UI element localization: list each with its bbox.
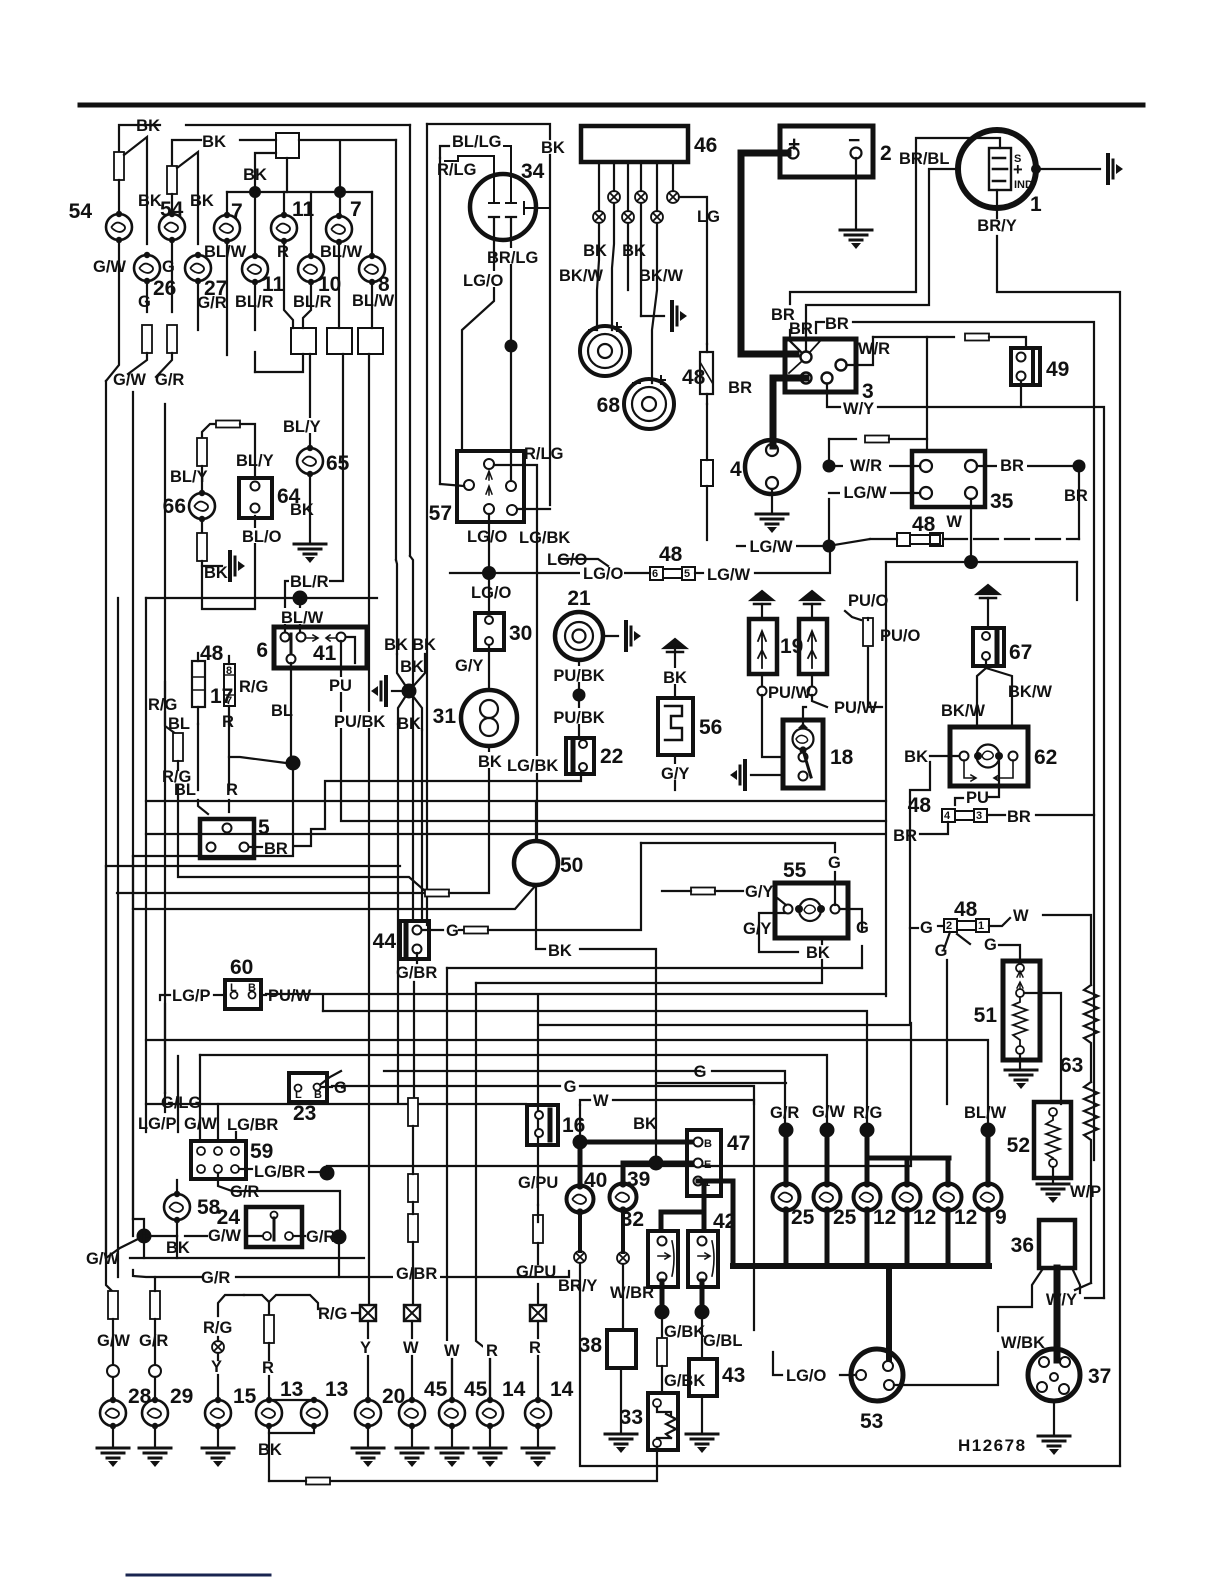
svg-text:R/G: R/G	[318, 1305, 347, 1323]
wire 49 to W/Y	[1020, 381, 1022, 407]
svg-text:63: 63	[1060, 1054, 1083, 1077]
relay 32	[648, 1231, 678, 1287]
svg-text:PU/BK: PU/BK	[553, 709, 604, 727]
svg-text:55: 55	[783, 859, 807, 882]
wires below boxes	[254, 352, 256, 372]
svg-text:W/R: W/R	[850, 457, 882, 475]
wire G diag below 48	[944, 932, 950, 949]
svg-text:BK: BK	[138, 192, 162, 210]
lamp 65	[297, 445, 323, 477]
svg-text:LG: LG	[697, 208, 720, 226]
wire BR down	[1078, 466, 1080, 539]
wire lamp10 down	[303, 282, 311, 328]
fuse	[142, 325, 152, 353]
svg-text:28: 28	[128, 1385, 152, 1408]
svg-text:W: W	[1013, 907, 1029, 925]
node BL/R dot	[293, 591, 308, 606]
svg-text:39: 39	[627, 1168, 650, 1191]
svg-text:R: R	[262, 1359, 274, 1377]
thick wire B line	[580, 1140, 692, 1145]
svg-text:LG/W: LG/W	[707, 566, 750, 584]
svg-text:33: 33	[620, 1406, 643, 1429]
svg-text:BK: BK	[136, 117, 160, 135]
svg-text:LG/O: LG/O	[463, 272, 503, 290]
wire bus y801	[146, 801, 536, 841]
svg-text:PU/W: PU/W	[268, 987, 312, 1005]
lamp 8	[359, 253, 385, 285]
svg-text:BK: BK	[290, 501, 314, 519]
svg-text:G/W: G/W	[208, 1227, 241, 1245]
wire to 49 from W/R	[873, 336, 954, 338]
connector 44	[400, 921, 429, 959]
wire BK	[144, 1235, 177, 1237]
wire G/W into 24	[185, 1235, 207, 1237]
wire lamp7-2 down	[338, 242, 340, 328]
wire BR right of 48	[987, 814, 1005, 816]
wire vertical x133	[132, 392, 134, 1236]
svg-text:48: 48	[954, 898, 978, 921]
battery + thick cable	[741, 153, 796, 354]
wire W/R lower line	[829, 438, 856, 440]
wire to G/W label	[128, 353, 147, 374]
lamp 14a	[483, 1341, 502, 1358]
fuel gauge 52	[1034, 1102, 1071, 1178]
svg-text:4: 4	[944, 810, 951, 822]
svg-text:23: 23	[293, 1102, 316, 1125]
polarity marks	[589, 323, 621, 331]
wire 63 tail to 36	[1075, 1283, 1091, 1290]
terminal symbols	[608, 191, 620, 203]
svg-text:G/R: G/R	[306, 1228, 335, 1246]
svg-text:50: 50	[560, 854, 583, 877]
svg-text:25: 25	[833, 1206, 857, 1229]
wire G/R lower	[133, 1270, 201, 1277]
wire bus y1071	[384, 1070, 700, 1072]
svg-text:G: G	[828, 854, 841, 872]
wire to arrow	[1036, 168, 1100, 170]
svg-text:6: 6	[256, 639, 268, 662]
fuse	[167, 325, 177, 353]
wire 42 down	[700, 1281, 705, 1306]
svg-text:PU/BK: PU/BK	[553, 667, 604, 685]
svg-text:48: 48	[908, 794, 932, 817]
svg-text:G/W: G/W	[86, 1250, 119, 1268]
svg-text:BK: BK	[806, 944, 830, 962]
svg-text:G: G	[856, 919, 869, 937]
node dot G/W	[137, 1229, 152, 1244]
svg-text:40: 40	[584, 1169, 607, 1192]
wire G/W left down	[106, 1258, 112, 1291]
ground 65	[294, 544, 326, 563]
svg-text:LG/BK: LG/BK	[519, 529, 570, 547]
node W dot thick	[573, 1135, 588, 1150]
ground arrow 66	[230, 552, 245, 580]
horn switch 55	[775, 883, 848, 938]
svg-text:48: 48	[659, 543, 683, 566]
solenoid 3	[785, 339, 856, 392]
svg-text:15: 15	[233, 1385, 257, 1408]
svg-text:R/LG: R/LG	[437, 161, 476, 179]
svg-text:BL: BL	[168, 715, 190, 733]
svg-text:2: 2	[946, 920, 952, 932]
svg-text:G: G	[694, 1063, 707, 1081]
thick feed 1 to relays	[698, 1181, 704, 1227]
svg-text:LG/P: LG/P	[138, 1115, 177, 1133]
lamp 54	[106, 211, 132, 243]
wires into 59	[164, 1093, 166, 1112]
wire vertical x428 from BK2	[395, 140, 397, 560]
svg-text:BK: BK	[412, 636, 436, 654]
wire diag to dot	[229, 757, 286, 763]
svg-text:BR/Y: BR/Y	[558, 1277, 597, 1295]
svg-text:G/R: G/R	[201, 1269, 230, 1287]
svg-text:16: 16	[562, 1114, 585, 1137]
lamp 13a	[256, 1397, 282, 1429]
svg-text:LG/BR: LG/BR	[254, 1163, 305, 1181]
node X junction dot	[402, 684, 417, 699]
wire BK below 55	[821, 938, 823, 944]
wire LG/O from 34	[462, 217, 499, 451]
svg-text:3: 3	[976, 810, 982, 822]
connector chevron 67	[977, 585, 999, 598]
wire 58 down to dot	[176, 1220, 178, 1236]
svg-text:G: G	[446, 922, 459, 940]
wire	[118, 180, 120, 214]
wire G/Y diag into 55	[776, 897, 786, 905]
svg-text:BL/W: BL/W	[204, 243, 247, 261]
wire G left of 48	[938, 925, 944, 927]
svg-text:W: W	[946, 513, 962, 531]
wire vertical x165	[164, 404, 166, 1093]
label BR 3 + wire BR long	[816, 322, 824, 333]
svg-text:BL/R: BL/R	[290, 573, 329, 591]
svg-text:LG/P: LG/P	[172, 987, 211, 1005]
lamp 12b	[894, 1180, 921, 1213]
svg-text:LG/BR: LG/BR	[227, 1116, 278, 1134]
wire PU corner to 48	[955, 798, 963, 805]
svg-text:43: 43	[722, 1364, 745, 1387]
wire BL to 5	[198, 800, 208, 814]
svg-text:L: L	[295, 1089, 302, 1101]
svg-text:BL/Y: BL/Y	[283, 418, 321, 436]
svg-text:BL/R: BL/R	[293, 293, 332, 311]
svg-text:BK: BK	[633, 1115, 657, 1133]
wire PU below 62	[989, 760, 999, 797]
svg-text:29: 29	[170, 1385, 193, 1408]
svg-text:BL: BL	[174, 781, 196, 799]
lamp 45a	[399, 1397, 425, 1429]
wire PU/W top into 18	[803, 707, 806, 723]
svg-text:G/BK: G/BK	[664, 1372, 705, 1390]
wire G to 51	[957, 934, 970, 944]
wire BK loop left	[910, 762, 930, 802]
svg-text:BK: BK	[397, 715, 421, 733]
wire below box c	[368, 354, 370, 1306]
wire G	[171, 240, 173, 312]
svg-text:G/BR: G/BR	[396, 964, 437, 982]
lamp 45b	[441, 1341, 464, 1358]
svg-text:G/R: G/R	[139, 1332, 168, 1350]
wire G/W	[106, 240, 119, 381]
svg-text:60: 60	[230, 956, 253, 979]
svg-text:PU/W: PU/W	[768, 684, 812, 702]
svg-text:G: G	[564, 1078, 577, 1096]
svg-text:LG/O: LG/O	[786, 1367, 826, 1385]
wire BK below 31	[488, 746, 490, 781]
svg-text:W/BK: W/BK	[1001, 1334, 1045, 1352]
wire bus y983 vertical	[476, 983, 490, 1400]
voltage stabiliser 51	[1003, 961, 1040, 1060]
wire 32 down	[660, 1281, 665, 1306]
svg-text:BK: BK	[548, 942, 572, 960]
wire BK/W right	[986, 660, 1012, 726]
svg-text:R: R	[226, 781, 238, 799]
svg-text:7: 7	[231, 200, 243, 223]
bottom-left short rule	[127, 1574, 270, 1577]
wire bus y856	[133, 770, 293, 856]
wire PU/BK	[578, 660, 580, 690]
wire G/R	[197, 281, 199, 330]
svg-text:38: 38	[579, 1334, 603, 1357]
wire PU/W right of 60	[261, 994, 266, 996]
heater motor 62	[950, 727, 1028, 786]
instrument 21	[555, 612, 603, 660]
node BR dot	[1073, 460, 1086, 473]
flasher 19a	[749, 619, 777, 674]
svg-text:BL/O: BL/O	[242, 528, 282, 546]
diagonals on 3	[789, 340, 821, 373]
wire W to 16	[580, 1100, 590, 1105]
wire LG/P left of 60	[214, 994, 225, 996]
svg-text:B: B	[704, 1138, 712, 1150]
panel switch 18	[783, 720, 823, 788]
wire BK into 62	[930, 755, 959, 757]
svg-text:BL/W: BL/W	[281, 609, 324, 627]
wire G from 23	[321, 1071, 341, 1084]
wire BK junction left	[255, 153, 276, 186]
distributor 37	[1028, 1349, 1080, 1401]
svg-text:W/Y: W/Y	[1046, 1291, 1077, 1309]
thick HT lead 36-37	[1054, 1268, 1061, 1360]
wire BK below 50	[536, 885, 545, 949]
wire G/BR below 44	[416, 953, 418, 963]
svg-text:G: G	[935, 942, 948, 960]
wire BK top	[119, 125, 160, 177]
svg-text:36: 36	[1011, 1234, 1034, 1257]
svg-text:5: 5	[258, 816, 270, 839]
wire W/Y into 36	[1085, 1297, 1104, 1299]
ignition distributor 53	[851, 1349, 903, 1401]
lamp 13b	[301, 1397, 327, 1429]
wire lamp11-2 down	[254, 282, 256, 330]
svg-text:47: 47	[727, 1132, 750, 1155]
svg-text:G/LG: G/LG	[161, 1094, 201, 1112]
svg-text:G/R: G/R	[230, 1183, 259, 1201]
wiper switch 57	[457, 451, 524, 522]
svg-text:53: 53	[860, 1410, 883, 1433]
svg-text:21: 21	[567, 587, 591, 610]
svg-text:LG/O: LG/O	[583, 565, 623, 583]
lamp 25b	[814, 1180, 841, 1213]
wire lamp8 down	[371, 282, 373, 328]
fuse 48	[700, 352, 713, 394]
wire BL/W into 6	[299, 598, 301, 631]
svg-text:G/Y: G/Y	[745, 883, 773, 901]
svg-text:62: 62	[1034, 746, 1057, 769]
svg-text:14: 14	[502, 1378, 526, 1401]
horn 50	[514, 841, 558, 885]
wire BR/LG	[506, 217, 516, 481]
fuse second column	[167, 166, 177, 194]
connector chevron left	[751, 591, 773, 604]
thick dots	[779, 1123, 794, 1138]
wire LG	[679, 197, 707, 344]
horn 68b	[624, 379, 674, 429]
svg-text:BR: BR	[1064, 487, 1088, 505]
svg-text:31: 31	[433, 705, 457, 728]
wire LG/O down to 30	[488, 580, 490, 613]
battery 2	[780, 126, 873, 177]
lamp 7 (2)	[326, 213, 352, 245]
fuse lower	[701, 460, 713, 486]
wire below box a	[255, 354, 303, 372]
svg-text:66: 66	[163, 495, 186, 518]
node on alternator rim	[1031, 164, 1041, 174]
svg-text:BR: BR	[728, 379, 752, 397]
ignition switch 34	[470, 174, 536, 240]
svg-text:BK/W: BK/W	[1008, 683, 1052, 701]
pin R/LG of 34	[445, 156, 499, 203]
svg-text:41: 41	[313, 642, 337, 665]
xbox R	[530, 1305, 546, 1321]
svg-text:PU/BK: PU/BK	[334, 713, 385, 731]
wire BL below 6	[290, 663, 292, 758]
fuse 17	[192, 661, 205, 707]
svg-text:12: 12	[873, 1206, 896, 1229]
connector box c	[358, 328, 383, 354]
wire LG/W lower	[737, 545, 823, 547]
svg-text:PU: PU	[966, 789, 989, 807]
node BK dot left	[249, 186, 261, 198]
pin BK of 34	[524, 202, 550, 214]
node LG/O dot	[482, 566, 496, 580]
svg-text:14: 14	[550, 1378, 574, 1401]
svg-text:PU: PU	[329, 677, 352, 695]
svg-text:G/PU: G/PU	[518, 1174, 558, 1192]
svg-text:2: 2	[880, 142, 892, 165]
wire R down from lamp11-1	[284, 241, 293, 328]
lamp 12c	[935, 1180, 962, 1213]
switch 67	[973, 628, 1004, 666]
lamp 20	[355, 1397, 381, 1429]
svg-text:W: W	[593, 1092, 609, 1110]
wire BK/W left	[977, 668, 986, 726]
node LG/BR dot	[320, 1166, 335, 1181]
ignition coil 36	[1039, 1220, 1075, 1268]
wire + (alternator)	[806, 169, 958, 352]
svg-text:54: 54	[160, 198, 184, 221]
node BK dot right	[334, 186, 346, 198]
thick wire E line	[623, 1161, 694, 1166]
wire 37 ground	[1053, 1401, 1055, 1434]
svg-text:22: 22	[600, 745, 623, 768]
oil switch 22	[566, 738, 594, 774]
svg-text:BL/W: BL/W	[964, 1104, 1007, 1122]
lamp 7	[214, 212, 240, 244]
svg-text:BK: BK	[258, 1441, 282, 1459]
lamp 25a	[773, 1180, 800, 1213]
svg-text:E: E	[704, 1159, 711, 1171]
washer pump 30	[475, 613, 504, 650]
svg-text:BL: BL	[271, 702, 293, 720]
svg-text:G/Y: G/Y	[661, 765, 689, 783]
svg-text:35: 35	[990, 490, 1014, 513]
ground arrow 21	[603, 635, 618, 637]
svg-text:37: 37	[1088, 1365, 1111, 1388]
svg-text:BK: BK	[478, 753, 502, 771]
wire LG down to 57 zone	[706, 404, 708, 460]
starter 4	[745, 440, 799, 494]
svg-text:G/W: G/W	[93, 258, 126, 276]
wire BR/BL	[790, 138, 1000, 304]
battery - wire to ground	[855, 158, 857, 228]
wire BR from 35	[977, 465, 1073, 467]
svg-text:W/R: W/R	[858, 340, 890, 358]
wire to G/R label	[156, 353, 172, 377]
headlamp 40	[578, 1142, 583, 1186]
svg-text:6: 6	[652, 568, 658, 580]
svg-text:W: W	[403, 1339, 419, 1357]
ground arrow	[672, 302, 687, 330]
svg-text:G/R: G/R	[770, 1104, 799, 1122]
thick cable 3 to 4	[773, 378, 806, 446]
wire LG/O from 57	[488, 514, 490, 567]
connector 8/7	[224, 664, 235, 706]
svg-text:12: 12	[913, 1206, 936, 1229]
svg-text:11: 11	[292, 198, 315, 221]
wire G right of 55	[840, 909, 862, 930]
svg-text:57: 57	[429, 502, 452, 525]
svg-text:R/G: R/G	[203, 1319, 232, 1337]
svg-text:BR/BL: BR/BL	[899, 150, 949, 168]
svg-text:5: 5	[684, 568, 690, 580]
node W/R dot	[823, 460, 836, 473]
fuse 48 (2-1)	[944, 919, 989, 932]
wire resistor line	[117, 892, 425, 894]
svg-text:8: 8	[226, 665, 232, 677]
svg-text:BR: BR	[825, 315, 849, 333]
thick R/G distribution	[867, 1156, 949, 1161]
svg-text:13: 13	[325, 1378, 348, 1401]
svg-text:G: G	[984, 936, 997, 954]
wire LG/BR right of 59	[239, 1168, 252, 1170]
svg-text:BK: BK	[204, 564, 228, 582]
wire R/G left	[164, 682, 166, 698]
wire G/Y loop left	[759, 913, 798, 952]
svg-text:G: G	[162, 258, 175, 276]
svg-text:+: +	[1013, 161, 1023, 179]
wires down	[597, 223, 599, 330]
svg-text:12: 12	[954, 1206, 977, 1229]
svg-text:B: B	[248, 982, 256, 994]
svg-text:4: 4	[730, 458, 742, 481]
lamp 66	[189, 490, 215, 522]
svg-text:G/BR: G/BR	[396, 1265, 437, 1283]
node dot on BR/LG	[505, 340, 518, 353]
svg-text:G: G	[138, 293, 151, 311]
svg-text:BK: BK	[541, 139, 565, 157]
wire 51 to ground	[1019, 1054, 1021, 1068]
